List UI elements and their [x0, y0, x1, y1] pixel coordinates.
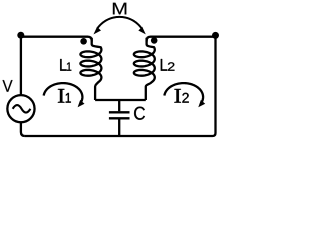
node dot right: [212, 32, 219, 39]
wire top-left segment: [21, 37, 92, 42]
capacitor C leads: [118, 99, 120, 136]
source V sine wave: [13, 105, 31, 113]
wire left rail lower: [21, 122, 25, 136]
polarity dot L2: [151, 37, 158, 44]
capacitor C bottom plate: [109, 117, 130, 119]
inductor L2: [134, 38, 155, 100]
wire bottom rail: [25, 135, 213, 137]
mutual inductance arc M: [98, 17, 142, 28]
M arrowhead right: [138, 27, 145, 35]
label L2: [161, 59, 175, 71]
wire between coil bottoms: [95, 99, 146, 101]
mesh current arc I1: [44, 83, 83, 102]
mesh current arc I2: [164, 83, 203, 102]
I2 arrowhead: [198, 100, 205, 107]
label L1: [60, 59, 71, 71]
I1 arrowhead: [78, 100, 85, 107]
wire right rail: [213, 36, 216, 136]
source V circle: [7, 95, 34, 122]
node dot left: [17, 32, 24, 39]
inductor L1: [80, 38, 101, 100]
label I1: [58, 89, 71, 103]
wire left rail upper: [20, 36, 22, 96]
label V: [3, 80, 13, 92]
label I2: [174, 89, 188, 103]
wire top-right segment: [147, 37, 216, 42]
M arrowhead left: [94, 27, 101, 35]
capacitor C top plate: [109, 111, 130, 113]
polarity dot L1: [80, 38, 87, 45]
label M: [113, 3, 126, 15]
label C: [134, 107, 145, 120]
